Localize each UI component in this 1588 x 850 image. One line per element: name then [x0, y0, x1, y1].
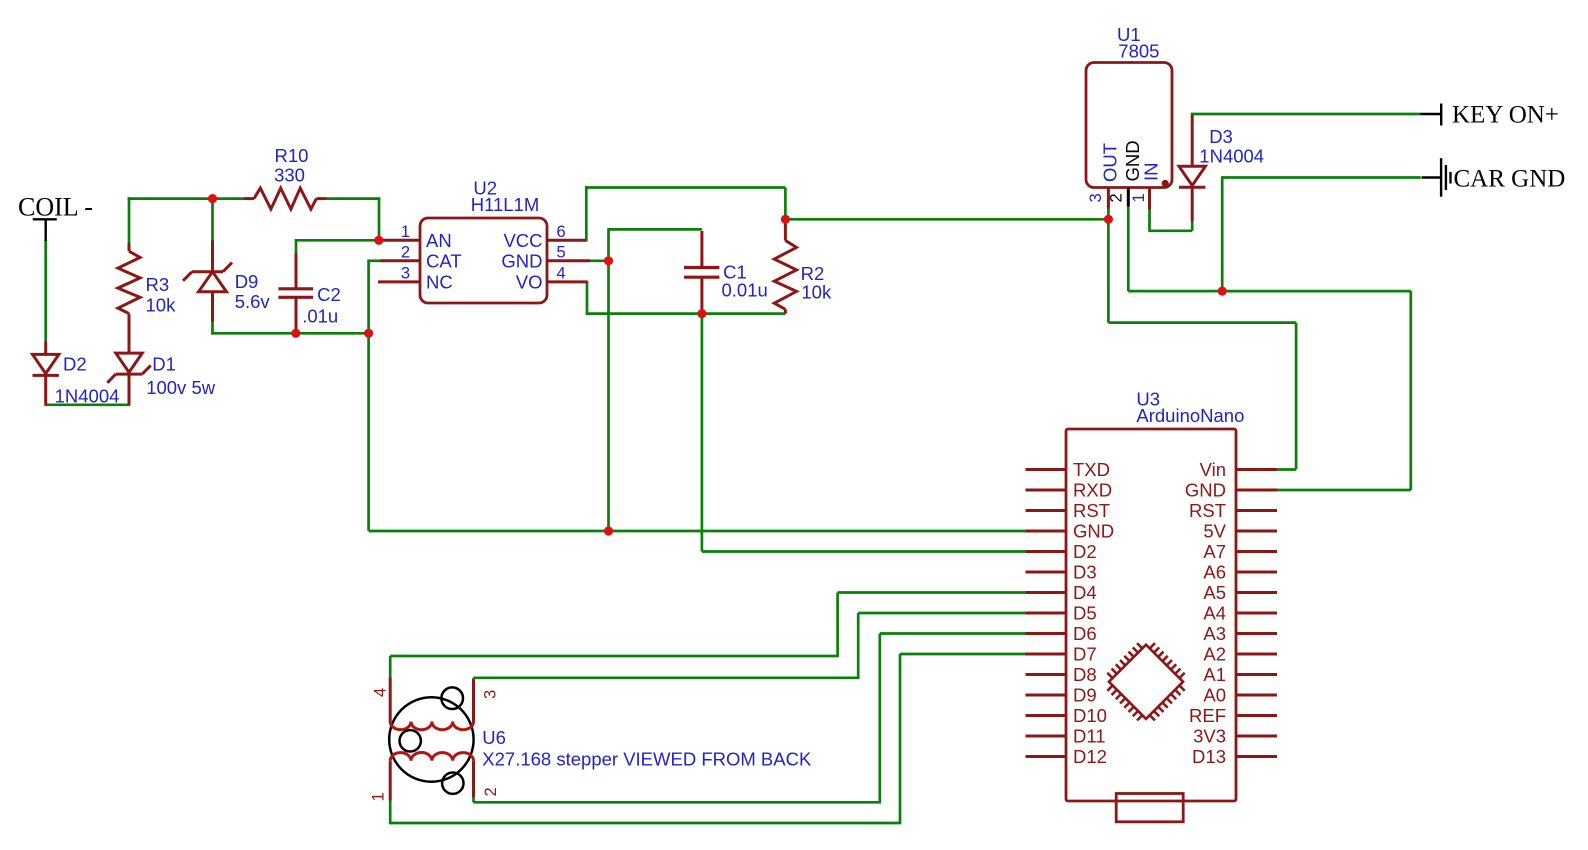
svg-text:CAT: CAT — [426, 251, 462, 272]
svg-text:100v 5w: 100v 5w — [146, 377, 216, 398]
svg-text:5: 5 — [557, 244, 566, 262]
svg-text:.01u: .01u — [302, 306, 338, 327]
svg-text:CAR GND: CAR GND — [1454, 166, 1566, 193]
svg-text:H11L1M: H11L1M — [471, 194, 540, 215]
svg-text:GND: GND — [1185, 480, 1226, 501]
svg-text:A1: A1 — [1203, 664, 1226, 685]
svg-text:D12: D12 — [1073, 746, 1107, 767]
svg-text:RST: RST — [1189, 500, 1226, 521]
svg-text:OUT: OUT — [1100, 143, 1121, 182]
svg-text:6: 6 — [557, 223, 566, 241]
svg-text:1N4004: 1N4004 — [55, 386, 120, 407]
svg-text:A6: A6 — [1203, 562, 1226, 583]
svg-text:R3: R3 — [146, 274, 170, 295]
svg-text:D7: D7 — [1073, 644, 1097, 665]
svg-text:R10: R10 — [275, 145, 309, 166]
svg-text:TXD: TXD — [1073, 459, 1110, 480]
svg-text:0.01u: 0.01u — [722, 280, 768, 301]
svg-text:A7: A7 — [1203, 541, 1226, 562]
svg-text:A2: A2 — [1203, 644, 1226, 665]
svg-text:GND: GND — [501, 251, 542, 272]
svg-text:VCC: VCC — [503, 230, 542, 251]
svg-text:5.6v: 5.6v — [235, 291, 271, 312]
svg-text:D3: D3 — [1073, 562, 1097, 583]
svg-text:2: 2 — [482, 787, 500, 796]
svg-text:4: 4 — [372, 688, 390, 697]
svg-text:A3: A3 — [1203, 623, 1226, 644]
svg-text:D13: D13 — [1192, 746, 1226, 767]
svg-text:KEY ON+: KEY ON+ — [1452, 102, 1559, 129]
svg-text:3: 3 — [401, 265, 410, 283]
svg-text:3V3: 3V3 — [1193, 726, 1226, 747]
svg-text:REF: REF — [1189, 705, 1226, 726]
svg-text:NC: NC — [426, 272, 453, 293]
svg-text:X27.168 stepper VIEWED FROM BA: X27.168 stepper VIEWED FROM BACK — [482, 749, 812, 770]
svg-text:7805: 7805 — [1118, 41, 1159, 62]
svg-text:D1: D1 — [152, 354, 176, 375]
svg-text:1: 1 — [370, 792, 388, 801]
svg-text:1: 1 — [401, 223, 410, 241]
svg-text:D11: D11 — [1073, 726, 1106, 747]
svg-text:RST: RST — [1073, 500, 1110, 521]
svg-text:1N4004: 1N4004 — [1199, 146, 1264, 167]
svg-text:4: 4 — [557, 265, 566, 283]
svg-text:A0: A0 — [1203, 685, 1226, 706]
svg-text:D9: D9 — [235, 271, 259, 292]
svg-text:COIL -: COIL - — [18, 193, 93, 222]
svg-text:Vin: Vin — [1200, 459, 1226, 480]
svg-text:AN: AN — [426, 230, 452, 251]
svg-text:2: 2 — [1108, 193, 1126, 202]
svg-text:ArduinoNano: ArduinoNano — [1136, 405, 1244, 426]
svg-text:D2: D2 — [63, 354, 87, 375]
svg-text:1: 1 — [1130, 193, 1148, 202]
svg-text:U6: U6 — [482, 727, 506, 748]
svg-text:10k: 10k — [801, 282, 832, 303]
svg-text:10k: 10k — [146, 295, 177, 316]
svg-text:D8: D8 — [1073, 664, 1097, 685]
svg-text:D6: D6 — [1073, 623, 1097, 644]
svg-text:D2: D2 — [1073, 541, 1097, 562]
svg-text:IN: IN — [1141, 163, 1162, 182]
svg-text:C2: C2 — [317, 284, 341, 305]
svg-text:D5: D5 — [1073, 603, 1097, 624]
svg-text:D9: D9 — [1073, 685, 1097, 706]
svg-text:GND: GND — [1073, 521, 1114, 542]
svg-text:2: 2 — [401, 244, 410, 262]
svg-text:A4: A4 — [1203, 603, 1226, 624]
svg-text:D10: D10 — [1073, 705, 1107, 726]
svg-text:D3: D3 — [1209, 126, 1233, 147]
svg-text:VO: VO — [516, 272, 543, 293]
svg-text:5V: 5V — [1203, 521, 1226, 542]
svg-text:D4: D4 — [1073, 582, 1097, 603]
svg-text:A5: A5 — [1203, 582, 1226, 603]
svg-text:RXD: RXD — [1073, 480, 1112, 501]
svg-text:330: 330 — [274, 165, 305, 186]
svg-text:3: 3 — [482, 690, 500, 699]
svg-text:3: 3 — [1087, 193, 1105, 202]
